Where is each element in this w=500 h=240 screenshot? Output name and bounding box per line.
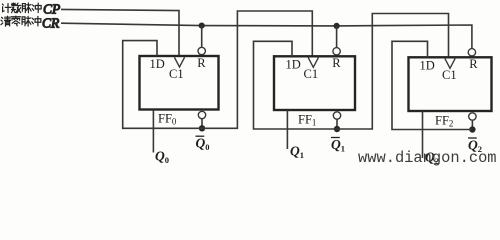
bubble FF2 R input — [468, 49, 475, 56]
wire FF2 Qbar feedback to 1D — [392, 41, 472, 129]
wire CP to FF0 clock — [61, 9, 179, 56]
wire CR junction to FF0 R — [201, 26, 203, 48]
bubble FF1 Qbar output — [333, 112, 340, 119]
svg-text:1D: 1D — [420, 58, 435, 72]
clock wedge of FF0 — [174, 57, 184, 67]
svg-text:C1: C1 — [442, 68, 457, 82]
wire FF1 Qbar stub — [336, 119, 338, 129]
svg-text:C1: C1 — [169, 67, 184, 81]
wire FF0 Qbar feedback to 1D — [123, 41, 202, 129]
bubble FF0 R input — [198, 47, 205, 54]
svg-text:1D: 1D — [150, 57, 165, 71]
wire FF0 Qbar to FF1 clock — [202, 11, 312, 128]
wire CR junction to FF1 R — [336, 26, 338, 48]
svg-text:C1: C1 — [304, 67, 319, 81]
bubble FF2 Qbar output — [469, 113, 476, 120]
net label Q1bar — [331, 137, 345, 154]
svg-text:www.diangon.com: www.diangon.com — [358, 149, 497, 167]
clock wedge of FF2 — [445, 59, 455, 69]
clock wedge of FF1 — [308, 58, 318, 68]
net label CR (清零脉冲 CR) — [1, 16, 60, 31]
wire CR bus — [61, 23, 472, 48]
wire Q2 output — [422, 111, 424, 158]
svg-text:1D: 1D — [286, 57, 301, 71]
wire FF2 Qbar stub — [471, 120, 473, 129]
wire FF1 Qbar feedback to 1D — [254, 41, 338, 129]
net label Q0bar — [196, 136, 210, 153]
svg-text:CP: CP — [43, 2, 60, 17]
net label Q2bar — [468, 138, 482, 155]
flip-flop FF2 box — [409, 57, 492, 111]
wire FF1 Qbar to FF2 clock — [337, 14, 449, 130]
svg-text:R: R — [332, 56, 341, 70]
wire Q0 output — [152, 110, 154, 153]
net label CP (计数脉冲 CP) — [2, 2, 60, 17]
node FF0 Qbar junction — [199, 125, 205, 131]
flip-flop FF1 box — [274, 56, 355, 110]
wire FF0 Qbar stub — [201, 119, 203, 129]
svg-text:R: R — [469, 57, 478, 71]
wire Q1 output — [286, 110, 288, 149]
node FF1 Qbar junction — [334, 126, 340, 132]
svg-text:CR: CR — [42, 16, 60, 31]
node FF2 Qbar junction — [469, 126, 475, 132]
node CR-FF0 junction — [199, 23, 205, 29]
bubble FF0 Qbar output — [198, 111, 205, 118]
svg-text:R: R — [197, 56, 206, 70]
bubble FF1 R input — [333, 48, 340, 55]
flip-flop FF0 box — [140, 56, 219, 110]
node CR-FF1 junction — [334, 23, 340, 29]
